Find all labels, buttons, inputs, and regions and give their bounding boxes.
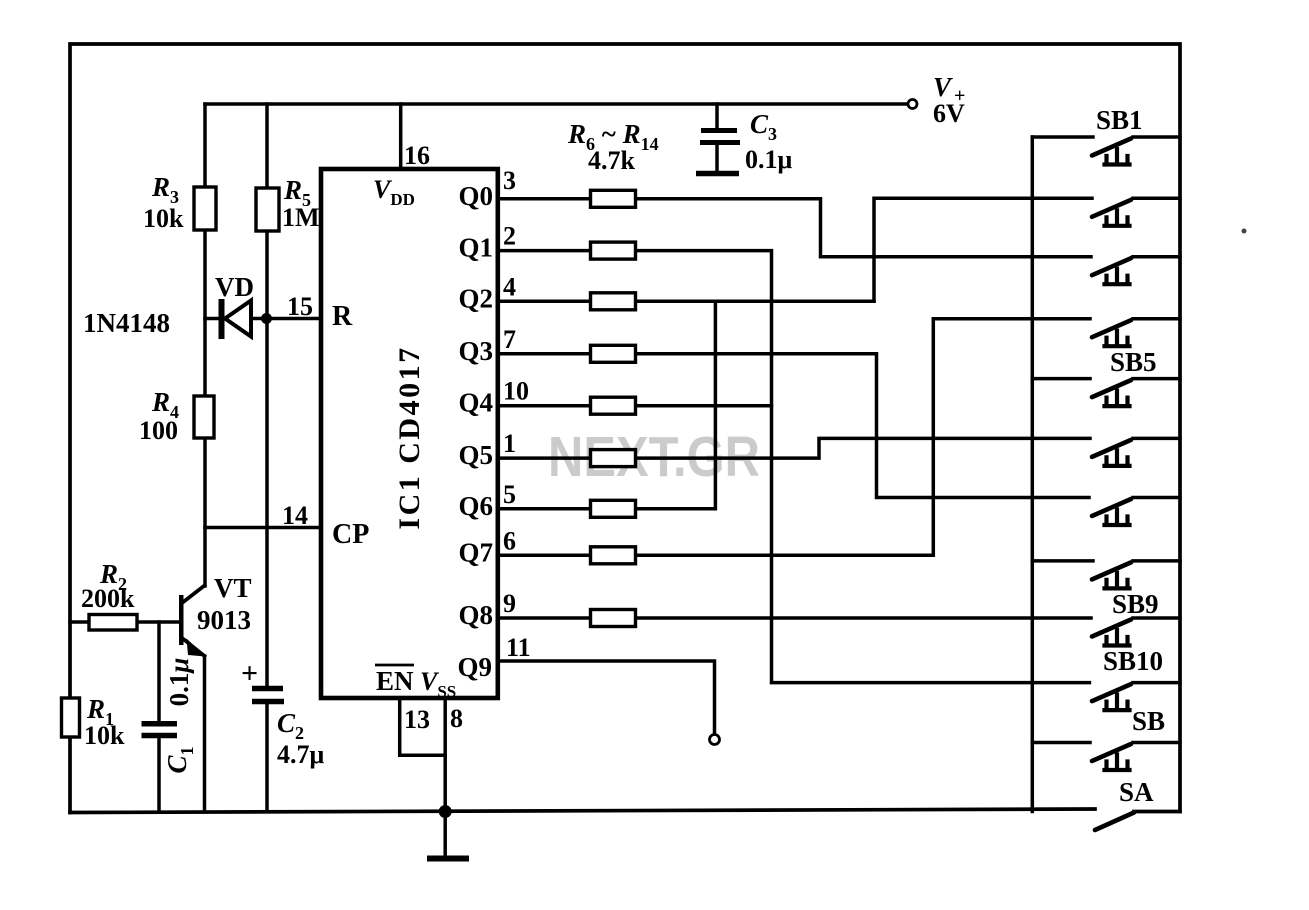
svg-text:9: 9 [503,589,516,618]
svg-text:+: + [241,657,258,690]
svg-text:10k: 10k [143,204,184,233]
svg-text:7: 7 [503,325,516,354]
svg-text:6: 6 [503,526,516,555]
svg-text:10: 10 [503,377,529,406]
svg-text:1M: 1M [282,203,320,232]
svg-text:R: R [332,301,353,332]
svg-text:CP: CP [332,519,369,550]
svg-text:Q2: Q2 [458,283,493,313]
svg-text:Q7: Q7 [458,537,493,567]
svg-text:13: 13 [404,705,430,734]
svg-text:1N4148: 1N4148 [83,308,170,338]
svg-text:Q3: Q3 [458,336,493,366]
svg-text:4.7k: 4.7k [588,146,636,175]
svg-text:SB: SB [1132,706,1165,736]
svg-text:4.7μ: 4.7μ [277,740,325,769]
svg-text:1: 1 [503,429,516,458]
svg-text:9013: 9013 [197,605,251,635]
svg-text:EN: EN [376,666,414,696]
svg-text:Q5: Q5 [458,440,493,470]
svg-text:5: 5 [503,480,516,509]
svg-text:SB9: SB9 [1112,589,1159,619]
svg-text:0.1μ: 0.1μ [745,145,793,174]
svg-text:Q1: Q1 [458,233,493,263]
svg-text:SA: SA [1119,777,1154,807]
svg-text:SB5: SB5 [1110,347,1157,377]
svg-text:V: V [933,72,953,102]
svg-text:200k: 200k [81,584,135,613]
svg-text:15: 15 [287,292,313,321]
svg-text:Q6: Q6 [458,491,493,521]
svg-text:SB1: SB1 [1096,105,1143,135]
svg-text:4: 4 [503,272,516,301]
svg-text:VT: VT [214,573,252,603]
svg-text:Q9: Q9 [457,652,492,682]
svg-text:11: 11 [506,633,531,662]
svg-text:IC1 CD4017: IC1 CD4017 [393,345,426,529]
svg-text:10k: 10k [84,721,125,750]
svg-text:Q8: Q8 [458,600,493,630]
svg-text:SB10: SB10 [1103,646,1163,676]
svg-text:16: 16 [404,141,430,170]
svg-text:0.1μ: 0.1μ [164,658,194,707]
svg-text:6V: 6V [933,99,965,128]
svg-text:8: 8 [450,704,463,733]
svg-text:Q0: Q0 [458,181,493,211]
svg-text:14: 14 [282,501,308,530]
svg-text:Q4: Q4 [458,388,493,418]
svg-text:2: 2 [503,222,516,251]
svg-text:3: 3 [503,166,516,195]
svg-text:100: 100 [139,416,178,445]
svg-text:VD: VD [215,272,254,302]
